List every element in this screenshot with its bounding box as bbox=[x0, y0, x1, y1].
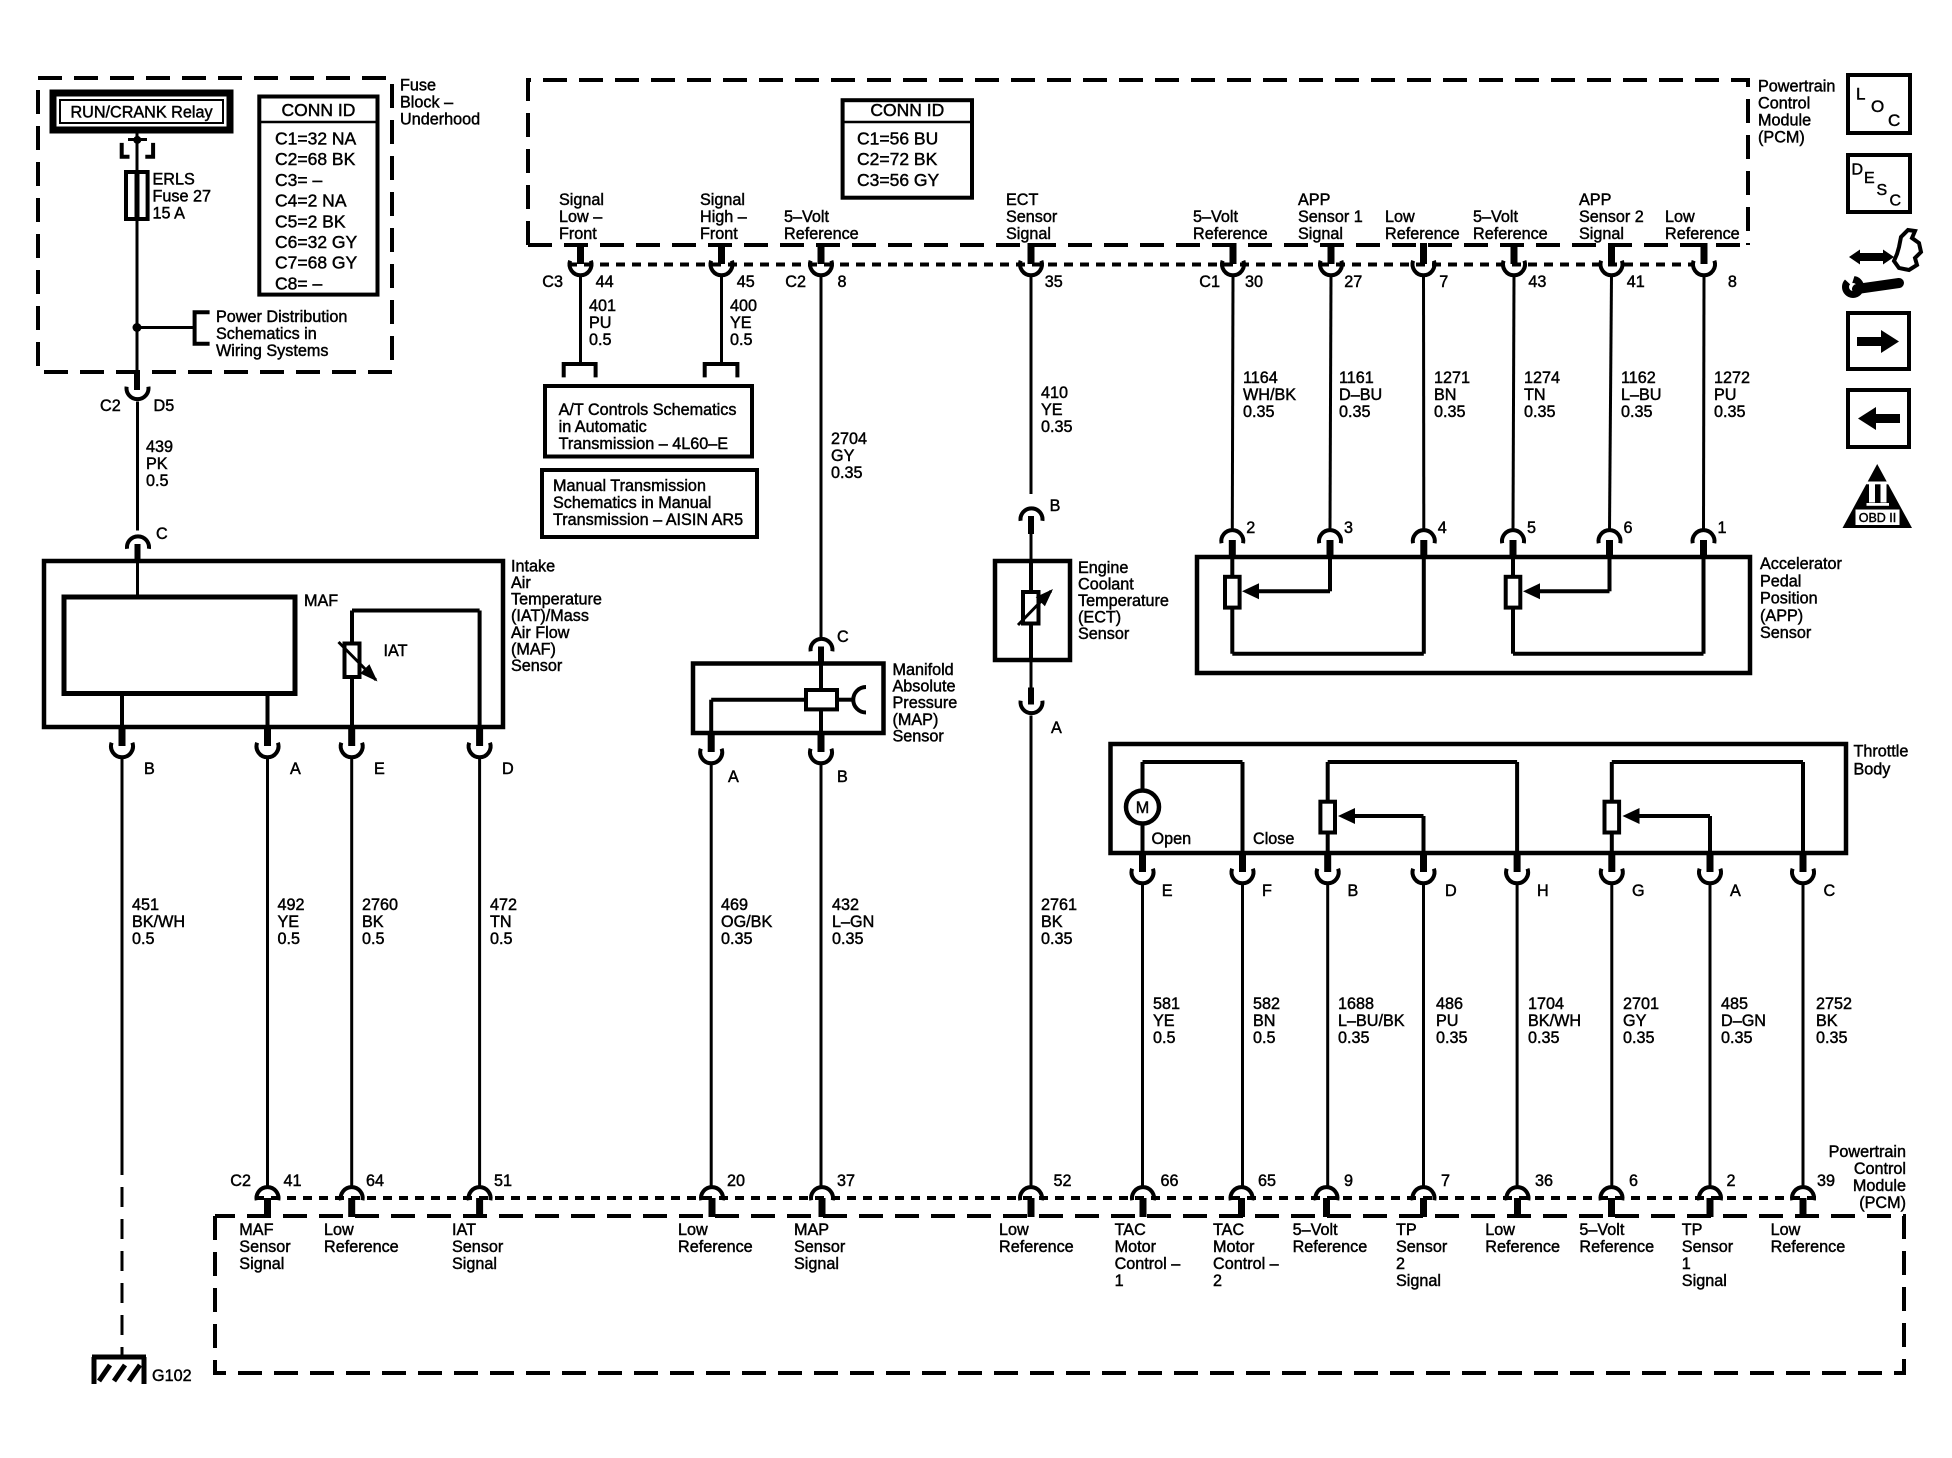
svg-text:APP: APP bbox=[1579, 191, 1611, 209]
svg-text:2704: 2704 bbox=[831, 430, 867, 448]
svg-text:TAC: TAC bbox=[1213, 1221, 1244, 1239]
svg-text:C: C bbox=[156, 525, 168, 543]
svg-text:Sensor: Sensor bbox=[452, 1238, 504, 1256]
svg-text:C: C bbox=[1890, 193, 1902, 210]
svg-text:ECT: ECT bbox=[1006, 191, 1038, 209]
svg-text:36: 36 bbox=[1535, 1172, 1553, 1190]
svg-text:Signal: Signal bbox=[794, 1255, 839, 1273]
svg-text:439: 439 bbox=[146, 438, 173, 456]
svg-text:41: 41 bbox=[284, 1172, 302, 1190]
svg-text:L–BU/BK: L–BU/BK bbox=[1338, 1012, 1405, 1030]
svg-text:RUN/CRANK Relay: RUN/CRANK Relay bbox=[70, 104, 213, 122]
svg-text:GY: GY bbox=[1623, 1012, 1647, 1030]
svg-text:Reference: Reference bbox=[784, 225, 859, 243]
svg-text:C2: C2 bbox=[785, 273, 806, 291]
svg-text:8: 8 bbox=[838, 273, 847, 291]
svg-text:C3= –: C3= – bbox=[275, 170, 322, 190]
svg-text:Reference: Reference bbox=[1293, 1238, 1368, 1256]
svg-text:401: 401 bbox=[589, 297, 616, 315]
svg-text:Powertrain: Powertrain bbox=[1829, 1143, 1906, 1161]
svg-text:1164: 1164 bbox=[1243, 369, 1278, 387]
svg-text:Reference: Reference bbox=[1473, 225, 1548, 243]
svg-text:Front: Front bbox=[559, 225, 597, 243]
svg-text:TN: TN bbox=[1524, 386, 1546, 404]
svg-text:Intake: Intake bbox=[511, 557, 555, 575]
svg-text:Powertrain: Powertrain bbox=[1758, 78, 1835, 96]
svg-text:C2=72 BK: C2=72 BK bbox=[857, 149, 938, 169]
svg-text:H: H bbox=[1537, 882, 1549, 900]
svg-text:Signal: Signal bbox=[700, 191, 745, 209]
svg-text:MAP: MAP bbox=[794, 1221, 829, 1239]
svg-text:TN: TN bbox=[490, 913, 512, 931]
svg-text:Low: Low bbox=[1665, 208, 1695, 226]
svg-text:Sensor: Sensor bbox=[893, 727, 945, 745]
svg-text:44: 44 bbox=[596, 273, 614, 291]
svg-text:Sensor: Sensor bbox=[511, 657, 563, 675]
svg-text:YE: YE bbox=[1041, 401, 1063, 419]
svg-text:TP: TP bbox=[1682, 1221, 1703, 1239]
svg-text:C4=2 NA: C4=2 NA bbox=[275, 191, 347, 211]
svg-text:MAF: MAF bbox=[304, 592, 338, 610]
svg-text:Pressure: Pressure bbox=[893, 694, 958, 712]
svg-text:Temperature: Temperature bbox=[1078, 592, 1169, 610]
svg-text:2: 2 bbox=[1246, 519, 1255, 537]
svg-text:Low –: Low – bbox=[559, 208, 602, 226]
svg-text:C3=56 GY: C3=56 GY bbox=[857, 170, 940, 190]
svg-text:1162: 1162 bbox=[1621, 369, 1656, 387]
svg-text:Reference: Reference bbox=[1665, 225, 1740, 243]
svg-text:GY: GY bbox=[831, 447, 855, 465]
svg-text:2760: 2760 bbox=[362, 896, 398, 914]
svg-text:37: 37 bbox=[837, 1172, 855, 1190]
svg-text:Control: Control bbox=[1854, 1160, 1906, 1178]
svg-text:Reference: Reference bbox=[324, 1238, 399, 1256]
svg-text:52: 52 bbox=[1054, 1172, 1072, 1190]
svg-text:Position: Position bbox=[1760, 590, 1818, 608]
svg-text:0.35: 0.35 bbox=[1721, 1029, 1753, 1047]
svg-text:5–Volt: 5–Volt bbox=[1473, 208, 1519, 226]
svg-text:BN: BN bbox=[1434, 386, 1457, 404]
svg-text:Manual Transmission: Manual Transmission bbox=[553, 477, 706, 495]
svg-text:Air Flow: Air Flow bbox=[511, 624, 570, 642]
svg-text:C1=56 BU: C1=56 BU bbox=[857, 129, 938, 149]
svg-text:2752: 2752 bbox=[1816, 995, 1852, 1013]
svg-text:Low: Low bbox=[1385, 208, 1415, 226]
svg-text:3: 3 bbox=[1344, 519, 1353, 537]
svg-text:1271: 1271 bbox=[1434, 369, 1470, 387]
svg-text:30: 30 bbox=[1245, 273, 1263, 291]
svg-text:0.35: 0.35 bbox=[721, 930, 753, 948]
svg-text:Sensor: Sensor bbox=[1760, 624, 1812, 642]
svg-text:Control –: Control – bbox=[1115, 1255, 1181, 1273]
svg-text:(IAT)/Mass: (IAT)/Mass bbox=[511, 607, 589, 625]
svg-text:CONN ID: CONN ID bbox=[870, 100, 944, 120]
svg-text:BK: BK bbox=[362, 913, 384, 931]
svg-text:Coolant: Coolant bbox=[1078, 576, 1134, 594]
svg-text:TP: TP bbox=[1396, 1221, 1417, 1239]
svg-text:BN: BN bbox=[1253, 1012, 1276, 1030]
svg-text:CONN ID: CONN ID bbox=[281, 100, 355, 120]
svg-text:Module: Module bbox=[1758, 112, 1811, 130]
svg-text:G102: G102 bbox=[152, 1367, 192, 1385]
svg-text:PU: PU bbox=[1436, 1012, 1459, 1030]
svg-text:0.5: 0.5 bbox=[1253, 1029, 1276, 1047]
svg-text:Absolute: Absolute bbox=[893, 678, 956, 696]
svg-text:Transmission – 4L60–E: Transmission – 4L60–E bbox=[559, 435, 729, 453]
svg-text:C2=68 BK: C2=68 BK bbox=[275, 149, 356, 169]
svg-text:Signal: Signal bbox=[239, 1255, 284, 1273]
svg-text:BK: BK bbox=[1041, 913, 1063, 931]
svg-text:485: 485 bbox=[1721, 995, 1748, 1013]
svg-text:8: 8 bbox=[1728, 273, 1737, 291]
svg-text:469: 469 bbox=[721, 896, 748, 914]
svg-text:Low: Low bbox=[1771, 1221, 1801, 1239]
svg-text:0.35: 0.35 bbox=[1041, 930, 1073, 948]
svg-text:D: D bbox=[1445, 882, 1457, 900]
svg-text:BK/WH: BK/WH bbox=[1528, 1012, 1581, 1030]
svg-text:Signal: Signal bbox=[452, 1255, 497, 1273]
svg-text:C: C bbox=[1824, 882, 1836, 900]
svg-text:PU: PU bbox=[1714, 386, 1737, 404]
svg-text:5–Volt: 5–Volt bbox=[1293, 1221, 1339, 1239]
svg-text:(MAF): (MAF) bbox=[511, 640, 556, 658]
svg-text:Manifold: Manifold bbox=[893, 661, 954, 679]
svg-text:L: L bbox=[1856, 85, 1865, 104]
svg-text:Low: Low bbox=[324, 1221, 354, 1239]
svg-text:O: O bbox=[1871, 97, 1884, 116]
svg-text:Sensor: Sensor bbox=[1078, 625, 1130, 643]
svg-text:WH/BK: WH/BK bbox=[1243, 386, 1296, 404]
svg-text:5: 5 bbox=[1527, 519, 1536, 537]
svg-text:Reference: Reference bbox=[1385, 225, 1460, 243]
svg-text:D: D bbox=[502, 760, 514, 778]
svg-text:Front: Front bbox=[700, 225, 738, 243]
svg-text:OG/BK: OG/BK bbox=[721, 913, 772, 931]
svg-text:Pedal: Pedal bbox=[1760, 572, 1801, 590]
svg-text:BK: BK bbox=[1816, 1012, 1838, 1030]
svg-text:G: G bbox=[1632, 882, 1645, 900]
svg-text:Signal: Signal bbox=[1579, 225, 1624, 243]
svg-text:0.35: 0.35 bbox=[831, 464, 863, 482]
svg-text:20: 20 bbox=[727, 1172, 745, 1190]
svg-text:D–BU: D–BU bbox=[1339, 386, 1382, 404]
svg-text:0.35: 0.35 bbox=[1621, 403, 1653, 421]
svg-text:L–GN: L–GN bbox=[832, 913, 874, 931]
svg-text:2701: 2701 bbox=[1623, 995, 1659, 1013]
svg-text:PU: PU bbox=[589, 314, 612, 332]
svg-text:A: A bbox=[728, 768, 739, 786]
svg-text:Sensor: Sensor bbox=[1682, 1238, 1734, 1256]
svg-text:E: E bbox=[374, 760, 385, 778]
svg-text:4: 4 bbox=[1438, 519, 1447, 537]
svg-text:Low: Low bbox=[678, 1221, 708, 1239]
svg-text:Wiring Systems: Wiring Systems bbox=[216, 342, 328, 360]
svg-text:Reference: Reference bbox=[1579, 1238, 1654, 1256]
svg-text:15 A: 15 A bbox=[153, 205, 186, 223]
svg-text:YE: YE bbox=[1153, 1012, 1175, 1030]
svg-text:492: 492 bbox=[278, 896, 305, 914]
svg-text:0.35: 0.35 bbox=[1528, 1029, 1560, 1047]
svg-text:IAT: IAT bbox=[384, 642, 408, 660]
svg-text:1: 1 bbox=[1682, 1255, 1691, 1273]
svg-text:66: 66 bbox=[1161, 1172, 1179, 1190]
svg-text:BK/WH: BK/WH bbox=[132, 913, 185, 931]
svg-text:Motor: Motor bbox=[1115, 1238, 1157, 1256]
svg-text:PK: PK bbox=[146, 455, 168, 473]
svg-text:(ECT): (ECT) bbox=[1078, 609, 1121, 627]
svg-text:2: 2 bbox=[1213, 1272, 1222, 1290]
svg-text:45: 45 bbox=[737, 273, 755, 291]
svg-text:Transmission – AISIN AR5: Transmission – AISIN AR5 bbox=[553, 511, 743, 529]
svg-text:B: B bbox=[837, 768, 848, 786]
svg-text:1688: 1688 bbox=[1338, 995, 1374, 1013]
svg-text:High –: High – bbox=[700, 208, 747, 226]
svg-text:ERLS: ERLS bbox=[153, 171, 195, 189]
svg-text:410: 410 bbox=[1041, 384, 1068, 402]
svg-text:9: 9 bbox=[1344, 1172, 1353, 1190]
svg-text:A: A bbox=[1051, 719, 1062, 737]
svg-text:Engine: Engine bbox=[1078, 559, 1128, 577]
svg-text:43: 43 bbox=[1528, 273, 1546, 291]
svg-text:64: 64 bbox=[366, 1172, 384, 1190]
svg-text:0.5: 0.5 bbox=[278, 930, 301, 948]
svg-text:IAT: IAT bbox=[452, 1221, 476, 1239]
svg-text:41: 41 bbox=[1627, 273, 1645, 291]
svg-text:2761: 2761 bbox=[1041, 896, 1077, 914]
svg-text:(MAP): (MAP) bbox=[893, 711, 939, 729]
svg-text:5–Volt: 5–Volt bbox=[1579, 1221, 1625, 1239]
svg-text:Signal: Signal bbox=[1396, 1272, 1441, 1290]
svg-text:0.35: 0.35 bbox=[1436, 1029, 1468, 1047]
svg-text:Reference: Reference bbox=[1193, 225, 1268, 243]
svg-text:B: B bbox=[1348, 882, 1359, 900]
svg-text:0.35: 0.35 bbox=[1338, 1029, 1370, 1047]
svg-text:27: 27 bbox=[1344, 273, 1362, 291]
svg-text:Temperature: Temperature bbox=[511, 591, 602, 609]
svg-text:Sensor 1: Sensor 1 bbox=[1298, 208, 1363, 226]
svg-text:0.35: 0.35 bbox=[1623, 1029, 1655, 1047]
svg-text:D5: D5 bbox=[154, 397, 175, 415]
svg-text:Accelerator: Accelerator bbox=[1760, 555, 1842, 573]
svg-text:Air: Air bbox=[511, 574, 531, 592]
svg-text:1704: 1704 bbox=[1528, 995, 1564, 1013]
svg-text:Control –: Control – bbox=[1213, 1255, 1279, 1273]
svg-text:0.5: 0.5 bbox=[132, 930, 155, 948]
svg-text:0.35: 0.35 bbox=[1816, 1029, 1848, 1047]
svg-text:0.5: 0.5 bbox=[730, 331, 753, 349]
svg-text:L–BU: L–BU bbox=[1621, 386, 1662, 404]
svg-text:0.35: 0.35 bbox=[1524, 403, 1556, 421]
svg-text:0.5: 0.5 bbox=[146, 472, 169, 490]
svg-text:Low: Low bbox=[999, 1221, 1029, 1239]
svg-text:D: D bbox=[1852, 162, 1864, 179]
svg-text:Block –: Block – bbox=[400, 94, 453, 112]
svg-text:0.5: 0.5 bbox=[362, 930, 385, 948]
svg-text:Signal: Signal bbox=[559, 191, 604, 209]
svg-text:TAC: TAC bbox=[1115, 1221, 1146, 1239]
svg-text:Signal: Signal bbox=[1006, 225, 1051, 243]
svg-text:in Automatic: in Automatic bbox=[559, 418, 647, 436]
svg-text:Sensor: Sensor bbox=[1006, 208, 1058, 226]
svg-text:Sensor: Sensor bbox=[239, 1238, 291, 1256]
svg-text:C2: C2 bbox=[100, 397, 121, 415]
svg-text:Body: Body bbox=[1854, 761, 1892, 779]
svg-text:2: 2 bbox=[1727, 1172, 1736, 1190]
svg-text:0.5: 0.5 bbox=[1153, 1029, 1176, 1047]
svg-text:Power Distribution: Power Distribution bbox=[216, 308, 347, 326]
svg-text:Reference: Reference bbox=[1485, 1238, 1560, 1256]
svg-text:0.35: 0.35 bbox=[1714, 403, 1746, 421]
svg-text:582: 582 bbox=[1253, 995, 1280, 1013]
svg-text:B: B bbox=[144, 760, 155, 778]
svg-text:S: S bbox=[1877, 182, 1888, 199]
svg-text:(PCM): (PCM) bbox=[1758, 129, 1805, 147]
svg-text:M: M bbox=[1136, 799, 1149, 817]
svg-text:C7=68 GY: C7=68 GY bbox=[275, 253, 358, 273]
svg-text:1: 1 bbox=[1115, 1272, 1124, 1290]
svg-text:D–GN: D–GN bbox=[1721, 1012, 1766, 1030]
svg-text:OBD II: OBD II bbox=[1859, 511, 1897, 525]
svg-text:Close: Close bbox=[1253, 830, 1294, 848]
svg-text:0.5: 0.5 bbox=[589, 331, 612, 349]
svg-text:C: C bbox=[1888, 111, 1900, 130]
svg-text:Underhood: Underhood bbox=[400, 111, 480, 129]
svg-text:Signal: Signal bbox=[1298, 225, 1343, 243]
svg-text:35: 35 bbox=[1045, 273, 1063, 291]
svg-text:400: 400 bbox=[730, 297, 757, 315]
svg-text:Sensor: Sensor bbox=[1396, 1238, 1448, 1256]
svg-text:432: 432 bbox=[832, 896, 859, 914]
svg-text:Module: Module bbox=[1853, 1177, 1906, 1195]
svg-text:1272: 1272 bbox=[1714, 369, 1750, 387]
svg-text:0.35: 0.35 bbox=[1243, 403, 1275, 421]
svg-text:Reference: Reference bbox=[999, 1238, 1074, 1256]
svg-text:486: 486 bbox=[1436, 995, 1463, 1013]
svg-text:Motor: Motor bbox=[1213, 1238, 1255, 1256]
svg-text:5–Volt: 5–Volt bbox=[784, 208, 830, 226]
svg-text:1161: 1161 bbox=[1339, 369, 1374, 387]
svg-text:0.35: 0.35 bbox=[832, 930, 864, 948]
svg-text:472: 472 bbox=[490, 896, 517, 914]
svg-text:C6=32 GY: C6=32 GY bbox=[275, 232, 358, 252]
svg-text:Sensor 2: Sensor 2 bbox=[1579, 208, 1644, 226]
svg-text:F: F bbox=[1262, 882, 1272, 900]
svg-text:0.5: 0.5 bbox=[490, 930, 513, 948]
svg-text:0.35: 0.35 bbox=[1434, 403, 1466, 421]
svg-text:Reference: Reference bbox=[678, 1238, 753, 1256]
svg-text:6: 6 bbox=[1624, 519, 1633, 537]
svg-text:Signal: Signal bbox=[1682, 1272, 1727, 1290]
svg-text:A/T Controls Schematics: A/T Controls Schematics bbox=[559, 401, 737, 419]
svg-text:6: 6 bbox=[1629, 1172, 1638, 1190]
svg-text:YE: YE bbox=[278, 913, 300, 931]
svg-text:Control: Control bbox=[1758, 95, 1810, 113]
svg-text:MAF: MAF bbox=[239, 1221, 273, 1239]
svg-text:7: 7 bbox=[1439, 273, 1448, 291]
svg-text:Schematics in: Schematics in bbox=[216, 325, 317, 343]
svg-text:C1=32 NA: C1=32 NA bbox=[275, 129, 357, 149]
svg-text:A: A bbox=[290, 760, 301, 778]
svg-text:39: 39 bbox=[1817, 1172, 1835, 1190]
svg-text:Reference: Reference bbox=[1771, 1238, 1846, 1256]
svg-text:C: C bbox=[837, 628, 849, 646]
svg-text:0.35: 0.35 bbox=[1041, 418, 1073, 436]
svg-text:Throttle: Throttle bbox=[1854, 743, 1909, 761]
svg-text:Sensor: Sensor bbox=[794, 1238, 846, 1256]
svg-text:A: A bbox=[1730, 882, 1741, 900]
svg-text:(PCM): (PCM) bbox=[1859, 1194, 1906, 1212]
svg-text:451: 451 bbox=[132, 896, 159, 914]
svg-text:2: 2 bbox=[1396, 1255, 1405, 1273]
svg-text:Low: Low bbox=[1485, 1221, 1515, 1239]
svg-text:(APP): (APP) bbox=[1760, 607, 1803, 625]
svg-text:APP: APP bbox=[1298, 191, 1330, 209]
svg-text:Fuse: Fuse bbox=[400, 77, 436, 95]
svg-text:7: 7 bbox=[1441, 1172, 1450, 1190]
svg-text:C8= –: C8= – bbox=[275, 273, 322, 293]
svg-text:C3: C3 bbox=[542, 273, 563, 291]
svg-text:0.35: 0.35 bbox=[1339, 403, 1371, 421]
svg-text:E: E bbox=[1162, 882, 1173, 900]
svg-text:C1: C1 bbox=[1199, 273, 1220, 291]
svg-text:581: 581 bbox=[1153, 995, 1180, 1013]
svg-text:Schematics in Manual: Schematics in Manual bbox=[553, 494, 711, 512]
svg-text:YE: YE bbox=[730, 314, 752, 332]
svg-text:Fuse 27: Fuse 27 bbox=[153, 188, 212, 206]
svg-text:1: 1 bbox=[1718, 519, 1727, 537]
svg-text:51: 51 bbox=[494, 1172, 512, 1190]
svg-text:C5=2 BK: C5=2 BK bbox=[275, 211, 346, 231]
svg-text:Open: Open bbox=[1152, 830, 1192, 848]
svg-text:E: E bbox=[1864, 170, 1875, 187]
svg-text:65: 65 bbox=[1258, 1172, 1276, 1190]
svg-text:B: B bbox=[1050, 497, 1061, 515]
svg-text:5–Volt: 5–Volt bbox=[1193, 208, 1239, 226]
svg-text:1274: 1274 bbox=[1524, 369, 1560, 387]
svg-text:C2: C2 bbox=[230, 1172, 251, 1190]
